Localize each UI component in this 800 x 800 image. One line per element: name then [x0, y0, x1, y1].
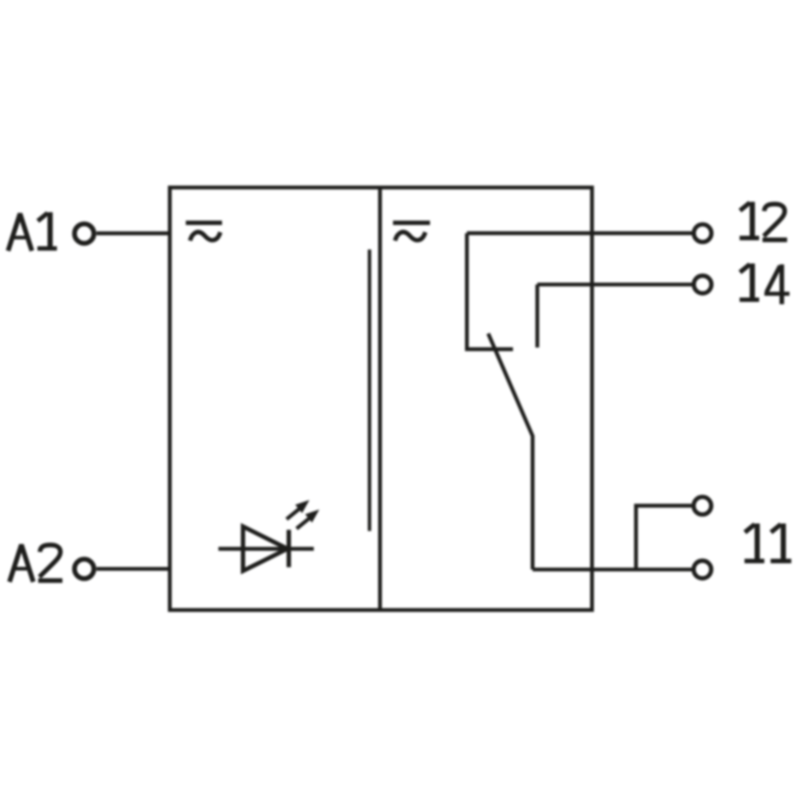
isolation divider wall — [378, 188, 382, 611]
wire common to 11 — [533, 568, 692, 572]
AC symbol left (tilde) — [190, 232, 220, 241]
wire contact 12 horizontal — [467, 231, 692, 235]
terminal circle 12 — [694, 224, 712, 242]
label 11 — [745, 524, 792, 562]
inner isolation barrier line — [368, 250, 371, 532]
label A1 — [8, 212, 57, 251]
fixed contact 14 leg — [535, 285, 539, 348]
terminal circle 14 — [694, 276, 712, 294]
LED light arrow 1 — [287, 500, 310, 519]
label 14 — [740, 264, 790, 305]
AC symbol left (overline) — [186, 221, 222, 225]
label A2 — [10, 545, 63, 582]
label 12 — [740, 202, 788, 240]
LED D1 anode/cathode horizontal lead — [218, 547, 313, 551]
terminal circle 11 bottom — [694, 561, 712, 579]
hook wire to upper 11 terminal — [636, 506, 692, 570]
LED D1 triangle — [243, 527, 288, 571]
AC symbol right (overline) — [393, 221, 430, 225]
fixed contact 12 leg — [467, 233, 513, 349]
device outline box — [170, 188, 592, 611]
wire A2 to box — [96, 567, 171, 571]
LED D1 cathode bar — [287, 530, 291, 567]
wire A1 to box — [96, 231, 171, 235]
terminal circle A2 — [75, 559, 94, 578]
relay switch blade (NC position) — [488, 334, 532, 570]
AC symbol right (tilde) — [395, 232, 425, 241]
LED light arrow 2 — [297, 510, 320, 529]
terminal circle 11 top — [694, 497, 712, 515]
wire contact 14 horizontal — [537, 283, 692, 287]
terminal circle A1 — [75, 224, 94, 243]
